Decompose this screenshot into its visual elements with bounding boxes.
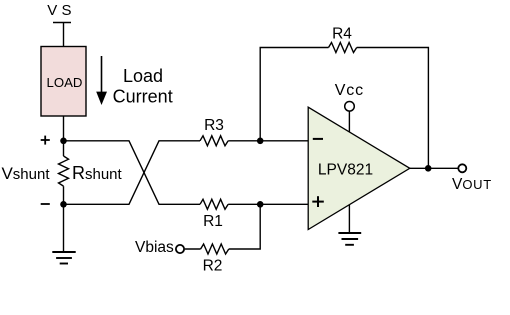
svg-text:LPV821: LPV821 — [318, 162, 373, 179]
svg-text:VOUT: VOUT — [452, 176, 492, 193]
svg-text:Rshunt: Rshunt — [72, 163, 123, 183]
svg-text:LOAD: LOAD — [47, 75, 83, 90]
svg-text:R2: R2 — [203, 258, 223, 275]
svg-text:Vshunt: Vshunt — [1, 164, 50, 183]
svg-text:R3: R3 — [204, 117, 224, 134]
svg-text:V S: V S — [47, 2, 71, 19]
svg-text:Load: Load — [123, 66, 163, 86]
svg-text:Vcc: Vcc — [335, 82, 364, 99]
svg-text:R4: R4 — [332, 26, 352, 43]
svg-text:Vbias: Vbias — [135, 239, 174, 256]
svg-text:Current: Current — [113, 86, 173, 106]
svg-text:R1: R1 — [203, 213, 223, 230]
